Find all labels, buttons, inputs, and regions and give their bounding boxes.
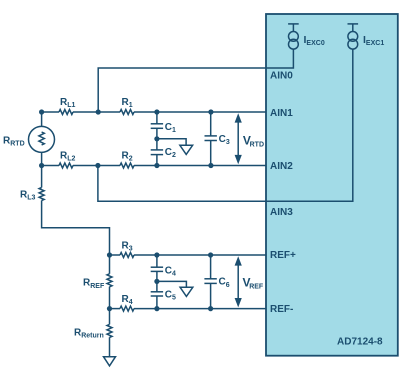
wire RL3 branch down to REF+ <box>42 166 110 256</box>
resistor R2 <box>120 163 134 168</box>
ground at C1 C2 junction <box>157 139 193 155</box>
ground below RReturn <box>104 357 116 366</box>
svg-text:RReturn: RReturn <box>74 327 104 339</box>
svg-text:C4: C4 <box>165 265 176 277</box>
node REF- left <box>107 306 112 311</box>
node C1 top <box>154 109 159 114</box>
resistor RL3 <box>39 188 44 201</box>
svg-text:VREF: VREF <box>243 276 264 291</box>
node C3 bottom <box>208 163 213 168</box>
svg-text:REF-: REF- <box>270 304 293 315</box>
resistor RREF vertical <box>107 255 112 309</box>
wire IEXC0 to AIN0 <box>98 49 293 112</box>
arrow VREF <box>235 256 242 307</box>
node REF+ left <box>107 252 112 257</box>
svg-text:RL2: RL2 <box>60 151 76 163</box>
node C1 C2 mid <box>154 136 159 141</box>
node C4 C5 mid <box>154 279 159 284</box>
svg-text:C1: C1 <box>165 122 176 134</box>
current source IEXC0 <box>288 24 299 49</box>
resistor R4 <box>120 306 134 311</box>
node C6 top <box>208 252 213 257</box>
svg-text:C3: C3 <box>219 134 230 146</box>
node C4 top <box>154 252 159 257</box>
capacitor C6 <box>204 255 216 309</box>
node RTD top <box>39 109 44 114</box>
svg-text:REF+: REF+ <box>270 250 296 261</box>
capacitor C3 <box>205 112 217 166</box>
svg-text:R2: R2 <box>122 151 133 163</box>
resistor R1 <box>120 110 134 115</box>
wire AIN2 rail <box>42 165 266 167</box>
node AIN3 tap <box>95 163 100 168</box>
wire IEXC1 to AIN3 <box>98 49 353 201</box>
svg-text:RL1: RL1 <box>60 97 76 109</box>
resistor RL2 <box>59 163 73 168</box>
wire REF- rail <box>110 308 267 310</box>
node C2 bottom <box>154 163 159 168</box>
wire AIN1 top rail <box>42 111 266 113</box>
node C5 bottom <box>154 306 159 311</box>
svg-text:C6: C6 <box>219 277 230 289</box>
RTD sensor RRTD <box>29 112 55 166</box>
arrow VRTD <box>235 113 242 164</box>
ground at C4 C5 junction <box>157 281 193 296</box>
current source IEXC1 <box>348 24 359 49</box>
svg-text:R4: R4 <box>122 294 133 306</box>
node AIN0 tap <box>96 109 101 114</box>
svg-text:AIN2: AIN2 <box>270 161 293 172</box>
svg-text:VRTD: VRTD <box>243 133 264 148</box>
svg-text:AIN3: AIN3 <box>270 207 293 218</box>
node C6 bottom <box>208 306 213 311</box>
capacitor C4 <box>151 255 163 281</box>
capacitor C1 <box>151 112 163 139</box>
svg-text:RREF: RREF <box>83 278 105 290</box>
svg-text:AIN1: AIN1 <box>270 108 293 119</box>
wire REF+ rail <box>110 254 267 256</box>
junction dots <box>39 109 213 311</box>
resistor RReturn vertical <box>107 309 112 357</box>
node RTD bottom <box>39 163 44 168</box>
svg-text:R3: R3 <box>122 240 133 252</box>
svg-text:AIN0: AIN0 <box>270 71 293 82</box>
svg-text:R1: R1 <box>122 97 133 109</box>
svg-text:C2: C2 <box>165 147 176 159</box>
svg-text:RRTD: RRTD <box>3 136 25 148</box>
svg-text:C5: C5 <box>165 290 176 302</box>
IC block U1 AD7124-8 <box>266 14 398 356</box>
capacitor C5 <box>151 281 163 308</box>
capacitor C2 <box>151 139 163 166</box>
resistor R3 <box>120 253 134 258</box>
node C3 top <box>208 109 213 114</box>
resistor RL1 <box>59 110 73 115</box>
svg-text:AD7124-8: AD7124-8 <box>337 337 383 348</box>
svg-text:RL3: RL3 <box>20 190 36 202</box>
